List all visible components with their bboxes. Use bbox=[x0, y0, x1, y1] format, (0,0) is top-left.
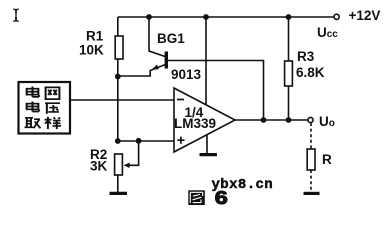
op-amp U1 1/4 LM339 bbox=[174, 88, 235, 152]
svg-text:10K: 10K bbox=[79, 43, 104, 58]
svg-text:6.8K: 6.8K bbox=[296, 65, 325, 80]
svg-text:R1: R1 bbox=[86, 29, 104, 44]
junction dot (+ node) bbox=[115, 138, 121, 144]
emitter wire with arrow bbox=[118, 65, 165, 76]
char 电 (line2) bbox=[27, 101, 39, 111]
output wire bbox=[235, 119, 308, 121]
junction dot at output node bbox=[261, 117, 267, 123]
wire: collector from rail bbox=[149, 17, 165, 57]
junction dot (wiper tap) bbox=[136, 138, 142, 144]
char 样 (line3) bbox=[45, 117, 61, 129]
svg-text:9013: 9013 bbox=[171, 67, 202, 82]
junction dot on rail (V+ branch) bbox=[203, 14, 209, 20]
char 取 (line3) bbox=[25, 118, 41, 128]
terminal Uo (open circle) bbox=[308, 117, 313, 122]
wire: rail to R3 bbox=[288, 17, 290, 61]
resistor R1 bbox=[115, 36, 123, 59]
char 压 (line2) bbox=[45, 103, 60, 114]
sampling block box 电网电压取样 bbox=[19, 82, 71, 134]
+ input wire bbox=[118, 140, 174, 142]
svg-text:Uo: Uo bbox=[319, 114, 335, 129]
ground (op-amp) bbox=[200, 153, 218, 156]
inverting input symbol bbox=[177, 99, 184, 101]
svg-text:BG1: BG1 bbox=[157, 31, 185, 46]
ground (load) bbox=[304, 192, 320, 195]
dashed wire to load resistor R bbox=[310, 123, 312, 149]
dashed wire: R to ground bbox=[310, 170, 312, 191]
junction dot on rail (collector branch) bbox=[146, 14, 152, 20]
junction dot on rail (R3 branch) bbox=[286, 14, 292, 20]
node A junction dot bbox=[115, 74, 121, 80]
label +12V bbox=[349, 8, 381, 23]
label Uo bbox=[319, 114, 335, 129]
label Ucc bbox=[317, 25, 338, 40]
svg-text:+12V: +12V bbox=[349, 8, 381, 23]
load resistor R bbox=[307, 149, 315, 170]
transistor BG1 base bar bbox=[165, 52, 168, 69]
svg-text:R3: R3 bbox=[297, 49, 315, 64]
wire: V+ supply to op-amp bbox=[205, 17, 207, 107]
char 网 (line1) bbox=[46, 87, 60, 99]
caption 图 6 bbox=[188, 190, 205, 205]
potentiometer R2 body bbox=[115, 154, 123, 175]
text cursor I-beam bbox=[13, 9, 18, 21]
+12V top rail bbox=[118, 16, 334, 18]
wiper wire and arrow bbox=[128, 141, 139, 165]
wire: R2 to ground bbox=[117, 175, 119, 192]
wire: R1 bottom down through node A to + node bbox=[117, 59, 119, 141]
svg-text:3K: 3K bbox=[90, 159, 108, 174]
ground (R2) bbox=[110, 192, 128, 195]
terminal +12V (open circle) bbox=[334, 14, 339, 19]
svg-text:6: 6 bbox=[215, 188, 228, 208]
wire: base to output node (feedback) bbox=[168, 61, 264, 121]
watermark ybx8.cn bbox=[212, 177, 274, 193]
wire: sampling block output to inverting input bbox=[70, 99, 174, 101]
svg-text:Ucc: Ucc bbox=[317, 25, 338, 40]
wire: op-amp ground pin bbox=[206, 135, 208, 153]
svg-text:R: R bbox=[322, 152, 332, 167]
label BG1 bbox=[157, 31, 185, 46]
resistor R3 bbox=[285, 61, 293, 86]
junction dot (R3/output) bbox=[286, 117, 292, 123]
char 电 (line1) bbox=[27, 86, 39, 96]
non-inverting input symbol bbox=[177, 137, 184, 144]
label 9013 bbox=[171, 67, 202, 82]
wire: R3 to output line bbox=[288, 86, 290, 120]
svg-text:LM339: LM339 bbox=[174, 116, 216, 131]
wire: rail down to R1 bbox=[117, 17, 119, 36]
